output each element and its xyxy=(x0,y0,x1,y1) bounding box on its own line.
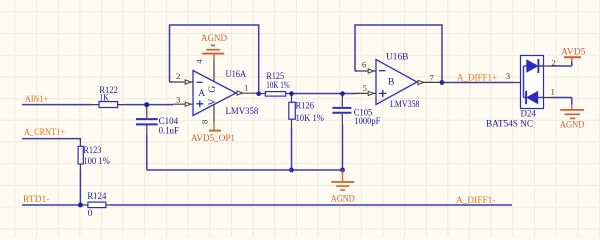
svg-text:3: 3 xyxy=(506,71,511,81)
part label BAT54S NC xyxy=(486,120,533,130)
value label 100 1% xyxy=(83,157,109,167)
value label C104 xyxy=(159,117,179,127)
resistor R126 xyxy=(289,96,296,171)
svg-text:3: 3 xyxy=(176,95,181,105)
svg-text:8: 8 xyxy=(200,119,210,124)
junction C105 top xyxy=(340,91,345,96)
pin 6 of U16B xyxy=(356,60,376,74)
svg-text:5: 5 xyxy=(363,83,368,93)
part label LMV358 xyxy=(226,107,259,117)
svg-text:2: 2 xyxy=(552,58,556,68)
svg-text:V: V xyxy=(208,98,218,105)
pin 5 of U16B xyxy=(356,83,376,96)
svg-text:C104: C104 xyxy=(159,117,179,127)
ground AGND right xyxy=(560,104,585,131)
designator U16A xyxy=(226,70,247,80)
diode D24 (BAT54S) xyxy=(521,56,544,109)
svg-text:7: 7 xyxy=(430,73,435,83)
svg-text:A_DIFF1+: A_DIFF1+ xyxy=(457,74,497,84)
svg-text:1000pF: 1000pF xyxy=(354,117,380,127)
value label 0 xyxy=(88,209,93,219)
pin 3 of U16A xyxy=(173,95,193,107)
svg-text:U16B: U16B xyxy=(386,53,408,63)
part label LMV358 xyxy=(390,100,420,110)
svg-text:R123: R123 xyxy=(83,146,101,156)
svg-text:2: 2 xyxy=(176,71,180,81)
svg-text:AIN1+: AIN1+ xyxy=(25,95,48,105)
svg-text:10K 1%: 10K 1% xyxy=(296,114,325,124)
capacitor C105 xyxy=(332,94,351,171)
svg-text:G: G xyxy=(208,86,218,93)
value label 0.1uF xyxy=(159,127,179,137)
value label C105 xyxy=(354,109,373,119)
wire RTD1- net xyxy=(22,204,512,206)
net label A_DIFF1- xyxy=(456,196,496,206)
resistor R123 xyxy=(78,146,83,164)
junction R126 bottom xyxy=(289,168,294,173)
svg-text:A: A xyxy=(198,89,205,99)
wire A_DIFF1+ net xyxy=(442,82,513,84)
ground AGND mid xyxy=(331,170,355,204)
svg-text:0.1uF: 0.1uF xyxy=(159,127,179,137)
value label R122 xyxy=(99,86,118,96)
power port AVD5_OP1 below U16A xyxy=(191,122,235,144)
svg-text:A_CRNT1+: A_CRNT1+ xyxy=(24,128,65,138)
resistor R125 xyxy=(265,92,285,97)
value label 1K xyxy=(99,94,109,104)
wire bottom rail xyxy=(147,169,343,171)
net label RTD1- xyxy=(23,195,50,205)
net label A_DIFF1+ xyxy=(457,74,497,84)
pin 2 of D24 xyxy=(544,58,572,68)
junction C105 bottom xyxy=(340,168,345,173)
svg-text:1: 1 xyxy=(551,87,555,97)
svg-text:0: 0 xyxy=(88,209,93,219)
svg-text:AVD5: AVD5 xyxy=(561,48,586,58)
power port AGND above U16A xyxy=(201,34,227,60)
op-amp U16A xyxy=(193,71,236,116)
value label R126 xyxy=(296,101,315,111)
svg-text:LMV358: LMV358 xyxy=(226,107,259,117)
svg-text:U16A: U16A xyxy=(226,70,247,80)
svg-text:AGND: AGND xyxy=(201,34,227,44)
svg-text:LMV358: LMV358 xyxy=(390,100,420,110)
pin 7 of U16B xyxy=(417,73,442,85)
value label R124 xyxy=(87,192,106,202)
svg-text:B: B xyxy=(388,78,394,88)
capacitor C104 xyxy=(136,106,158,170)
designator D24 xyxy=(521,110,537,120)
svg-text:10K 1%: 10K 1% xyxy=(266,81,290,91)
svg-text:AVD5_OP1: AVD5_OP1 xyxy=(191,134,235,144)
value label R123 xyxy=(83,146,101,156)
value label 1000pF xyxy=(354,117,380,127)
wire U16A feedback loop xyxy=(170,25,259,94)
value label 10K 1% xyxy=(296,114,325,124)
wire U16B feedback loop xyxy=(355,25,442,83)
junction feedback/output U16B xyxy=(440,80,445,85)
junction R123/RTD1- xyxy=(78,203,83,208)
pin 3 of D24 xyxy=(506,71,521,83)
wire R123 bottom lead xyxy=(79,164,81,205)
net label A_CRNT1+ xyxy=(24,128,65,138)
pin 8 of U16A xyxy=(200,105,215,124)
resistor R124 xyxy=(88,202,106,208)
net label AIN1+ xyxy=(25,95,48,105)
pin 2 of U16A xyxy=(171,71,193,84)
svg-text:AGND: AGND xyxy=(331,194,355,204)
svg-text:1: 1 xyxy=(244,83,248,93)
value label R125 xyxy=(267,72,285,82)
svg-text:6: 6 xyxy=(362,60,367,70)
value label 10K 1% xyxy=(266,81,290,91)
svg-text:R124: R124 xyxy=(87,192,106,202)
svg-text:R126: R126 xyxy=(296,101,315,111)
wire A_CRNT1+ net xyxy=(22,139,80,147)
pin 1 of D24 xyxy=(544,87,572,105)
pin 1 of U16A xyxy=(236,83,259,96)
svg-text:1K: 1K xyxy=(99,94,109,104)
op-amp U16B xyxy=(376,60,417,105)
svg-text:4: 4 xyxy=(194,59,204,64)
svg-text:AGND: AGND xyxy=(560,121,585,131)
svg-text:BAT54S NC: BAT54S NC xyxy=(486,120,533,130)
wire AIN1+ net xyxy=(22,104,173,106)
power port AVD5 xyxy=(561,48,586,62)
junction R126 top xyxy=(289,91,294,96)
svg-text:A_DIFF1-: A_DIFF1- xyxy=(456,196,496,206)
svg-text:D24: D24 xyxy=(521,110,537,120)
designator U16B xyxy=(386,53,408,63)
pin 4 of U16A xyxy=(194,59,214,81)
junction feedback/output U16A xyxy=(256,91,261,96)
junction C104 top xyxy=(144,102,149,107)
wire U16A output net xyxy=(259,93,357,95)
svg-text:RTD1-: RTD1- xyxy=(23,195,50,205)
svg-text:100 1%: 100 1% xyxy=(83,157,109,167)
resistor R122 xyxy=(99,102,118,108)
